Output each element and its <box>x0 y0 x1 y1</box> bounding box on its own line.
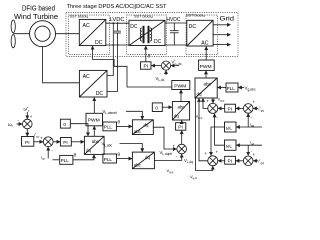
wire: V_L,abcref into abc/dq <box>126 111 142 119</box>
svg-text:DFIG based: DFIG based <box>22 6 55 13</box>
svg-text:+: + <box>216 150 219 155</box>
wire: vq* up into dq/abc <box>203 98 208 108</box>
wire: i*_gd into summer <box>253 160 258 162</box>
controller PI (rotor current) <box>60 138 71 147</box>
wire: i_q,r feedback up <box>47 147 49 158</box>
svg-text:+: + <box>30 114 33 119</box>
transform dq/abc (SST1) <box>172 102 189 121</box>
controller PI (V_L) <box>176 123 186 131</box>
title: DFIG based Wind Turbine <box>14 6 58 22</box>
summer S8 (i_gq error) <box>243 104 253 114</box>
svg-text:DC: DC <box>154 39 162 45</box>
svg-text:abc: abc <box>204 82 212 87</box>
wire: dq/abc to PWM <box>205 71 207 78</box>
svg-text:+: + <box>207 99 210 104</box>
svg-text:ωL: ωL <box>226 126 233 131</box>
wire: dq/abc to PWM <box>93 126 95 136</box>
wire: wL(d) output to S7 bottom <box>215 114 225 145</box>
wire: rotor to RSC <box>43 47 80 83</box>
svg-text:+: + <box>40 136 43 141</box>
svg-text:+: + <box>253 152 256 157</box>
svg-text:+: + <box>205 151 208 156</box>
wire: grid phase a arrow <box>213 23 231 27</box>
wire: LVDC bottom bus <box>106 44 129 46</box>
wire: summer to PI <box>26 129 28 136</box>
svg-text:dq: dq <box>86 148 91 153</box>
converter U3: SST block3 DC/AC <box>187 20 213 46</box>
wire: S2 to PI2 <box>53 141 60 143</box>
svg-text:DC: DC <box>189 24 197 30</box>
summer S2 (current) <box>43 137 53 147</box>
turbine shaft <box>13 33 29 35</box>
controller PI (speed) <box>22 137 34 147</box>
svg-text:DC: DC <box>95 40 103 46</box>
svg-text:dq: dq <box>144 122 149 127</box>
wire: i*_gq into summer <box>253 107 258 109</box>
wind turbine blades <box>11 20 15 48</box>
wire: vd* up into dq/abc <box>199 98 208 160</box>
controller PI (q current) <box>225 104 236 112</box>
wire: PWM to block1 gates <box>93 46 172 87</box>
svg-text:SST block2: SST block2 <box>134 14 153 19</box>
wire: grid phase b arrow <box>213 33 231 37</box>
svg-text:PI: PI <box>178 125 183 131</box>
wire: V_L,dqref to summer <box>153 127 176 149</box>
wire: V_g,abc into PLL <box>238 87 244 89</box>
wire: summer to PI <box>181 131 183 145</box>
wire: grid phase c arrow <box>213 43 231 47</box>
junction dots on LVDC bottom bus <box>112 22 118 46</box>
wire: V_L,abc into abc/dq <box>120 144 143 152</box>
summer S5 (V_L,dc) <box>161 61 170 70</box>
converter U4: rotor side AC/DC <box>79 70 107 97</box>
dashed box SST block3 <box>186 15 218 55</box>
block PLL (meas) <box>103 154 117 163</box>
svg-text:PI: PI <box>228 106 233 112</box>
block PWM (grid) <box>199 60 215 70</box>
wire: i_gq line into wL and up to S8 <box>236 114 262 127</box>
wire: PLL theta to abc/dq <box>117 125 133 127</box>
svg-text:SST block1: SST block1 <box>70 15 89 20</box>
svg-text:ωL: ωL <box>226 144 233 149</box>
svg-text:SST block3: SST block3 <box>186 14 205 19</box>
wire: PLL to dq/abc <box>218 87 226 89</box>
transformer T1 (inside DAB) <box>140 26 151 43</box>
svg-text:dq: dq <box>145 155 150 160</box>
wire: RSC dc tap lower to LVDC bus <box>107 45 118 91</box>
svg-text:HVDC: HVDC <box>166 17 180 23</box>
svg-text:+: + <box>253 100 256 105</box>
svg-text:PI: PI <box>63 140 68 146</box>
wire: V_g,q feedforward into summer top <box>212 98 214 103</box>
transform dq/abc (grid) <box>195 78 217 98</box>
wire: PLL theta to abc/dq <box>117 158 133 160</box>
svg-text:AC: AC <box>201 40 208 46</box>
SST outer dashed boundary <box>66 13 238 57</box>
transform abc/dq (ref) <box>132 120 153 135</box>
svg-text:PLL: PLL <box>104 125 113 130</box>
wire: PLL theta to dq/abc <box>73 155 94 160</box>
converter U1: SST block1 AC/DC <box>79 19 106 46</box>
wire: S10 to PI <box>236 160 244 162</box>
block wL (d) <box>225 140 237 150</box>
svg-text:DC: DC <box>130 24 138 30</box>
block PLL (rotor) <box>60 155 73 164</box>
generator G (double circle) <box>30 21 56 47</box>
block PLL (ref) <box>103 122 117 131</box>
wire: i_gd line into wL and down to S10 <box>236 145 262 155</box>
block zero reference <box>60 119 70 128</box>
svg-text:+: + <box>173 144 176 149</box>
svg-text:PI: PI <box>144 63 149 69</box>
wire: PI2 to dq/abc <box>71 141 84 143</box>
wire: V*_L,dc reference into summer <box>171 65 179 67</box>
svg-text:0: 0 <box>155 106 158 112</box>
svg-text:PI: PI <box>25 140 30 146</box>
block wL (q) <box>225 122 237 132</box>
svg-text:abc: abc <box>178 105 186 110</box>
svg-text:0: 0 <box>63 122 66 128</box>
svg-text:PI: PI <box>228 159 233 165</box>
block PLL (grid) <box>226 83 238 92</box>
svg-text:Grid: Grid <box>220 17 235 23</box>
wire: zero ref to dq/abc <box>70 124 88 136</box>
block PWM (rotor) <box>86 113 103 126</box>
wire: omega_r into summer <box>17 123 23 125</box>
wire: V_L,dc sense from LVDC bus <box>165 71 167 76</box>
controller PI (DAB phase) <box>141 62 152 70</box>
summer S1 (speed) <box>23 119 33 129</box>
wire: PI to summer S2 <box>34 141 43 143</box>
block PWM (SST1) <box>172 81 190 90</box>
svg-text:θ: θ <box>148 54 151 59</box>
wire: PI to dq/abc <box>181 121 183 123</box>
wire: zero to dq/abc <box>162 106 172 108</box>
wire: PLL stub <box>53 159 60 161</box>
wire: S8 to PI <box>236 107 244 109</box>
wire: V_L,dq to summer <box>154 154 181 160</box>
summer S6 (V_L,dq) <box>177 144 187 154</box>
wire: PI to DAB phase shift <box>145 46 147 62</box>
wire: stator to SST block1 <box>56 33 80 35</box>
wire: PWM to block3 gates <box>205 47 207 60</box>
svg-text:PWM: PWM <box>174 84 186 90</box>
svg-text:dq: dq <box>197 92 203 97</box>
wire: wL(q) output to S9 top <box>211 127 225 155</box>
svg-text:Three stage DPDS AC/DC||DC/AC: Three stage DPDS AC/DC||DC/AC SST <box>67 4 168 10</box>
svg-text:dq: dq <box>174 114 179 119</box>
wire: HVDC top bus <box>165 22 187 24</box>
svg-text:Wind Turbine: Wind Turbine <box>14 14 58 21</box>
svg-text:LVDC: LVDC <box>110 17 125 23</box>
wire: omega_r* into summer <box>26 112 28 119</box>
svg-text:abc: abc <box>134 129 142 134</box>
svg-text:DC: DC <box>96 91 104 97</box>
svg-text:AC: AC <box>83 23 90 29</box>
transform dq/abc (rotor) <box>84 136 104 154</box>
converter U2: SST block2 DAB DC/DC <box>129 20 165 45</box>
wire: summer to PI <box>152 65 162 67</box>
wire: PI to summer S7 <box>218 107 225 109</box>
dashed box SST block1 <box>69 15 110 55</box>
wire: dq-abc to PWM <box>180 90 182 102</box>
wire: LVDC top bus <box>106 22 129 24</box>
block zero reference (SST1) <box>152 103 162 112</box>
capacitor C2 (HVDC link) <box>170 23 179 45</box>
dashed box SST block2 <box>127 15 167 55</box>
svg-text:AC: AC <box>83 74 90 80</box>
svg-text:PLL: PLL <box>227 86 236 91</box>
svg-text:abc: abc <box>134 163 142 168</box>
summer S10 (i_gd error) <box>243 156 253 166</box>
wire: HVDC bottom bus <box>165 44 187 46</box>
wire: PI to summer S9 <box>218 160 225 162</box>
transform abc/dq (meas) <box>132 152 154 169</box>
summer S7 (q axis) <box>208 103 218 113</box>
capacitor C1 (LVDC link) <box>113 23 121 45</box>
svg-text:PLL: PLL <box>61 158 70 163</box>
svg-text:PWM: PWM <box>200 64 212 70</box>
controller PI (d current) <box>225 156 236 164</box>
svg-text:PWM: PWM <box>88 117 100 123</box>
svg-text:abc: abc <box>92 139 100 144</box>
wire: V_g,d feedforward into S9 bottom <box>196 98 213 170</box>
summer S9 (d axis) <box>208 156 218 166</box>
wire: PWM to RSC gates <box>93 98 95 114</box>
wire: RSC dc tap upper to LVDC bus <box>107 45 113 76</box>
svg-text:PLL: PLL <box>104 157 113 162</box>
